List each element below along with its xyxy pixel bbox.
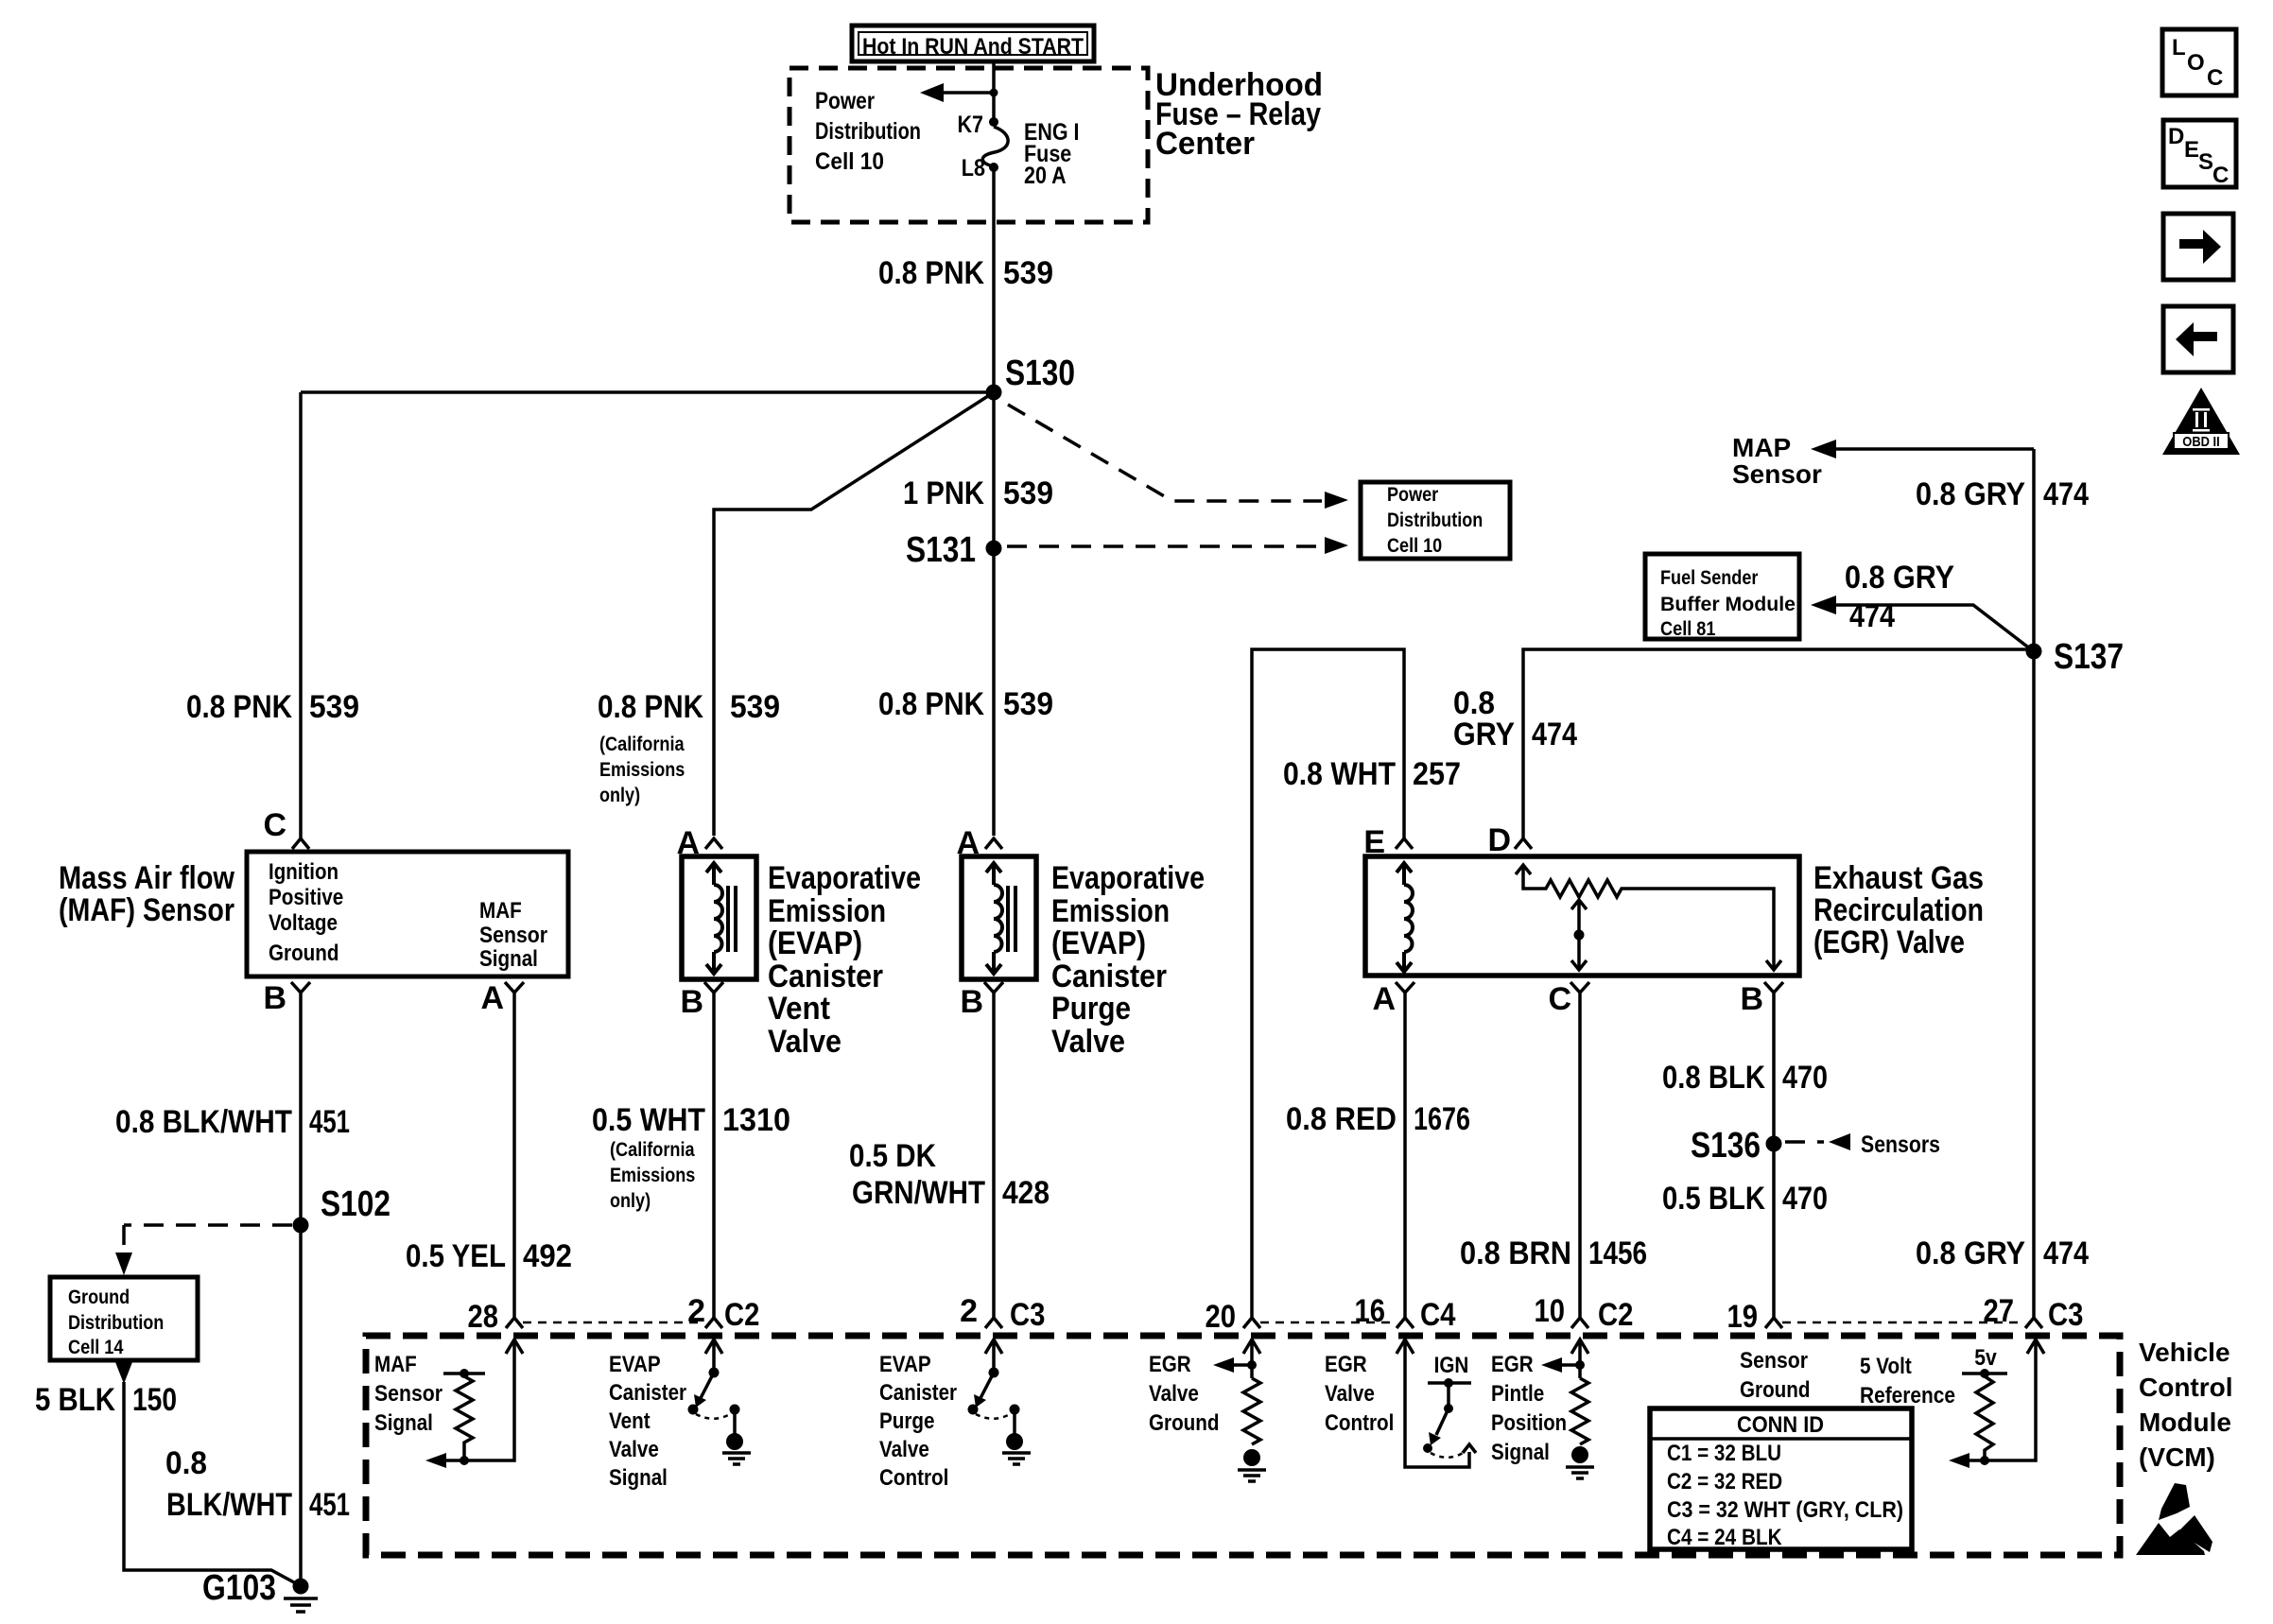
wire S130 down to S131 and purge valve [992,392,996,836]
node 5 Volt Reference circuit (pin 27) [1860,1339,2044,1468]
svg-text:10: 10 [1535,1293,1566,1329]
svg-text:B: B [1740,981,1763,1017]
node MAF Sensor Signal input circuit (pin 28) [374,1339,523,1468]
svg-text:474: 474 [1849,598,1895,634]
svg-text:0.8 PNK: 0.8 PNK [878,686,984,722]
svg-text:Cell 81: Cell 81 [1660,618,1716,640]
label Evaporative Emission (EVAP) Canister Vent Valve [768,860,921,1060]
svg-text:0.8 RED: 0.8 RED [1286,1101,1397,1137]
svg-text:Positive: Positive [269,885,343,910]
wire 0.8 BLK 470 EGR B to S136 [1772,1000,1776,1318]
label 0.5 WHT 1310 (California) [592,1102,790,1212]
svg-text:Sensor: Sensor [374,1381,442,1407]
svg-text:Purge: Purge [1051,991,1131,1027]
svg-text:Evaporative: Evaporative [768,860,921,896]
svg-text:Control: Control [879,1465,948,1491]
svg-text:0.8 BLK/WHT: 0.8 BLK/WHT [115,1104,292,1140]
fuse F ENG I 20A [958,112,1080,189]
svg-text:0.5 BLK: 0.5 BLK [1662,1181,1765,1217]
svg-text:B: B [263,980,286,1016]
underhood fuse-relay center box [789,68,1148,222]
svg-text:5 Volt: 5 Volt [1860,1354,1912,1379]
svg-text:Control: Control [1325,1410,1394,1436]
pin B of MAF sensor [263,980,310,1016]
pin 2 C2 of VCM [687,1293,759,1333]
svg-text:Purge: Purge [879,1408,935,1434]
svg-text:EVAP: EVAP [609,1352,661,1377]
svg-text:257: 257 [1413,756,1461,792]
wire link pin 28 to pin 2 [523,1322,703,1324]
wire 0.8 BRN 1456 EGR C to pin 10 C2 [1578,1000,1582,1318]
icon right arrow box [2163,214,2233,280]
svg-text:Ignition: Ignition [269,859,338,885]
svg-text:Ground: Ground [269,941,339,966]
icon DESC box [2163,120,2236,188]
svg-text:2: 2 [687,1293,705,1329]
svg-text:19: 19 [1727,1299,1759,1335]
wire dashed S136 to other sensors [1785,1132,1940,1158]
svg-text:0.5 DK: 0.5 DK [849,1138,936,1174]
svg-text:5 BLK: 5 BLK [35,1382,115,1418]
node EVAP Canister Vent Valve Signal driver (pin 2 C2) [609,1339,751,1491]
svg-text:0.8 BRN: 0.8 BRN [1460,1235,1571,1271]
svg-text:EGR: EGR [1491,1352,1534,1377]
node S136 [1766,1136,1782,1152]
svg-text:S: S [2198,149,2213,175]
component MAF sensor box [247,852,568,976]
svg-text:C4 = 24 BLK: C4 = 24 BLK [1667,1525,1782,1550]
svg-text:D: D [1487,822,1511,858]
label Exhaust Gas Recirculation (EGR) Valve [1813,860,1984,960]
svg-text:Canister: Canister [879,1380,957,1406]
svg-text:Hot In RUN And START: Hot In RUN And START [862,34,1084,60]
wire 0.5 DK GRN/WHT 428 purge valve to pin 2 C3 [992,1000,996,1318]
svg-text:B: B [680,984,703,1020]
svg-text:28: 28 [468,1299,499,1335]
svg-text:Module: Module [2139,1408,2231,1437]
svg-text:MAP: MAP [1732,433,1791,462]
wire S130 to MAF branch (horizontal) [301,390,994,394]
icon OBD II triangle [2162,388,2240,455]
svg-text:428: 428 [1002,1175,1050,1211]
svg-text:S102: S102 [321,1184,390,1224]
svg-text:C3 = 32 WHT (GRY, CLR): C3 = 32 WHT (GRY, CLR) [1667,1497,1903,1523]
svg-text:BLK/WHT: BLK/WHT [166,1487,292,1523]
svg-text:0.8: 0.8 [165,1445,207,1481]
pin 27 C3 of VCM [1984,1293,2084,1333]
svg-text:Emissions: Emissions [610,1165,695,1186]
svg-text:C: C [263,807,286,843]
svg-text:O: O [2187,50,2205,76]
svg-text:1456: 1456 [1588,1235,1647,1271]
svg-text:EGR: EGR [1149,1352,1191,1377]
svg-text:GRY: GRY [1453,717,1515,752]
svg-text:OBD II: OBD II [2182,434,2219,450]
resistor EGR pintle potentiometer [1516,865,1774,970]
svg-text:Valve: Valve [1051,1024,1125,1060]
icon LOC box [2162,29,2236,95]
wire 0.5 WHT 1310 vent valve to pin 2 C2 [712,1000,716,1318]
component EVAP canister purge valve [962,856,1036,979]
label Mass Air flow (MAF) Sensor [59,860,234,928]
wire feed from header into fuse box [992,61,996,122]
svg-text:0.8 WHT: 0.8 WHT [1283,756,1396,792]
node Sensor Ground (pin 19) [1740,1348,1811,1403]
node EGR Pintle Position Signal input (pin 10 C2) [1491,1339,1594,1478]
svg-text:492: 492 [523,1238,572,1274]
svg-text:Emissions: Emissions [599,759,685,781]
svg-text:Mass Air flow: Mass Air flow [59,860,234,896]
component VCM dashed box [366,1336,2120,1555]
svg-text:0.8 PNK: 0.8 PNK [598,689,703,725]
pin 28 of VCM [468,1299,524,1335]
label 0.5 DK GRN/WHT 428 [849,1138,1050,1211]
svg-text:CONN ID: CONN ID [1737,1412,1824,1438]
icon left arrow box [2163,306,2233,372]
pin 20 of VCM [1206,1299,1261,1335]
icon ESD warning triangles [2136,1483,2212,1555]
pin B of EGR valve [1740,981,1783,1017]
svg-text:539: 539 [1003,475,1053,511]
svg-text:S131: S131 [906,530,976,570]
wire dashed S131 to Power Distribution Cell 10 [1007,537,1348,554]
svg-text:1310: 1310 [722,1102,790,1138]
pin C of MAF sensor [263,807,309,849]
pin B of EVAP vent valve [680,982,723,1020]
svg-text:474: 474 [2043,476,2089,512]
label 0.8 GRY 474 (pin D) [1453,685,1577,752]
svg-text:IGN: IGN [1434,1353,1469,1378]
svg-text:S130: S130 [1005,354,1075,393]
component EGR valve box [1365,856,1799,976]
svg-text:Valve: Valve [879,1437,929,1462]
svg-text:20 A: 20 A [1024,163,1067,189]
svg-text:5v: 5v [1974,1345,1997,1371]
svg-text:EGR: EGR [1325,1352,1367,1377]
wire 0.8 GRY 474 from S137 down to EGR pin D [1523,649,2034,838]
pin 2 C3 of VCM [960,1293,1045,1333]
svg-text:539: 539 [1003,255,1053,291]
svg-text:only): only) [599,785,640,806]
node Ground Distribution Cell 14 box [50,1277,198,1360]
pin C of EGR valve [1548,981,1589,1017]
svg-text:C3: C3 [2048,1297,2083,1333]
svg-text:Cell 14: Cell 14 [68,1337,124,1358]
svg-text:Sensor: Sensor [479,923,547,948]
svg-text:Evaporative: Evaporative [1051,860,1205,896]
svg-text:MAF: MAF [479,898,522,924]
svg-text:Recirculation: Recirculation [1813,892,1984,928]
svg-text:Distribution: Distribution [815,118,921,145]
svg-text:150: 150 [132,1382,177,1418]
svg-text:451: 451 [309,1104,350,1140]
svg-text:Canister: Canister [1051,959,1167,994]
svg-text:2: 2 [960,1293,978,1329]
svg-text:Ground: Ground [68,1287,130,1308]
svg-text:Vent: Vent [609,1408,651,1434]
wire S130 diagonal branch to vent valve [714,394,991,836]
wire 0.8 WHT 257 loop pin 20 to EGR pin E [1252,649,1404,1318]
svg-text:Signal: Signal [374,1410,433,1436]
svg-text:D: D [2168,124,2184,149]
svg-text:B: B [960,984,983,1020]
node Power Distribution Cell 10 box [1361,482,1510,559]
svg-text:S137: S137 [2054,637,2124,677]
svg-text:(VCM): (VCM) [2139,1443,2215,1472]
svg-text:Valve: Valve [1325,1381,1375,1407]
svg-text:Valve: Valve [768,1024,842,1060]
node Fuel Sender Buffer Module Cell 81 box [1645,554,1799,640]
svg-text:(EVAP): (EVAP) [1051,925,1146,961]
pin A of EGR valve [1372,981,1414,1017]
svg-text:0.8 PNK: 0.8 PNK [186,689,292,725]
transistor EGR Valve Control driver (pin 16 C4) [1325,1339,1476,1467]
svg-text:Distribution: Distribution [68,1312,164,1334]
label Vehicle Control Module (VCM) [2139,1338,2233,1472]
svg-text:G103: G103 [202,1568,276,1608]
svg-text:16: 16 [1355,1293,1386,1329]
svg-text:L: L [2172,35,2186,60]
svg-text:0.5 WHT: 0.5 WHT [592,1102,705,1138]
svg-text:(EVAP): (EVAP) [768,925,862,961]
node EGR Valve Ground circuit (pin 20) [1149,1339,1266,1481]
wire dashed S102 to Ground Distribution [115,1225,292,1275]
svg-text:Signal: Signal [1491,1440,1550,1465]
svg-text:1 PNK: 1 PNK [903,475,984,511]
svg-text:539: 539 [730,689,780,725]
svg-text:Sensor: Sensor [1732,459,1822,489]
pin 19 of VCM [1727,1299,1783,1335]
svg-text:Distribution: Distribution [1387,510,1483,531]
pin A of MAF sensor [480,980,524,1016]
node S130 [986,385,1002,401]
svg-text:Signal: Signal [479,946,538,972]
svg-text:C: C [2212,163,2229,188]
svg-text:0.8 BLK: 0.8 BLK [1662,1060,1765,1096]
wire dashed S130 to Power Distribution Cell 10 [1008,405,1348,509]
svg-text:470: 470 [1782,1181,1828,1217]
node CONN ID table [1650,1408,1912,1550]
svg-text:(MAF) Sensor: (MAF) Sensor [59,892,234,928]
svg-text:Power: Power [1387,484,1438,506]
svg-text:Valve: Valve [609,1437,659,1462]
svg-text:Voltage: Voltage [269,910,338,936]
svg-text:0.5 YEL: 0.5 YEL [406,1238,506,1274]
svg-text:474: 474 [1532,717,1577,752]
svg-text:20: 20 [1206,1299,1237,1335]
svg-text:only): only) [610,1190,651,1212]
svg-text:Cell 10: Cell 10 [1387,535,1442,557]
svg-text:1676: 1676 [1414,1101,1470,1137]
label Power Distribution Cell 10 (fuse box) [815,88,921,175]
svg-text:Position: Position [1491,1410,1567,1436]
svg-text:Sensors: Sensors [1861,1132,1940,1158]
wire 0.8 RED 1676 EGR A to pin 16 C4 [1403,1000,1407,1318]
pin E of EGR valve [1363,824,1413,860]
wire MAF ignition feed down [299,392,303,838]
svg-text:C2: C2 [1598,1297,1633,1333]
svg-text:K7: K7 [958,112,984,138]
svg-text:Canister: Canister [609,1380,686,1406]
svg-text:EVAP: EVAP [879,1352,931,1377]
wire EGR pintle wiper [1571,900,1587,970]
svg-text:0.8 GRY: 0.8 GRY [1845,560,1954,596]
svg-text:Cell 10: Cell 10 [815,148,884,175]
wire arrow to power distribution (left) [920,83,998,102]
wire link pin 20 to pin 16 [1260,1322,1395,1324]
svg-text:474: 474 [2043,1235,2089,1271]
svg-text:S136: S136 [1691,1126,1761,1166]
svg-text:C4: C4 [1420,1297,1456,1333]
svg-text:Reference: Reference [1860,1383,1955,1408]
wire MAP sensor arrow from 474 wire [1732,433,2034,489]
svg-text:539: 539 [309,689,359,725]
svg-text:C3: C3 [1010,1297,1045,1333]
wire link pin 19 to pin 27 [1782,1322,2024,1324]
svg-text:C2: C2 [724,1297,759,1333]
wire 0.8 BLK/WHT 451 MAF ground down to G103 [299,1000,303,1586]
svg-text:(California: (California [610,1139,695,1161]
pin B of EVAP purge valve [960,982,1003,1020]
svg-text:0.8 GRY: 0.8 GRY [1916,1235,2025,1271]
svg-text:Sensor: Sensor [1740,1348,1808,1373]
svg-text:Emission: Emission [768,893,886,929]
node EVAP Canister Purge Valve Control driver (pin 2 C3) [879,1339,1031,1491]
svg-text:Center: Center [1155,126,1255,162]
svg-text:0.8 PNK: 0.8 PNK [878,255,984,291]
svg-text:MAF: MAF [374,1352,417,1377]
svg-text:Pintle: Pintle [1491,1381,1544,1407]
wire 0.8 GRY 474 main down to pin 27 C3 [2032,449,2036,1318]
wire 5 BLK 150 from Ground Distribution to G103 [115,1362,294,1582]
node S102 [293,1218,309,1234]
svg-text:A: A [1372,981,1396,1017]
svg-text:470: 470 [1782,1060,1828,1096]
pin 16 C4 of VCM [1355,1293,1456,1333]
svg-text:A: A [480,980,504,1016]
svg-text:Ground: Ground [1740,1377,1811,1403]
wire 0.5 YEL 492 MAF signal to pin 28 [512,1000,516,1318]
svg-text:Vent: Vent [768,991,830,1027]
svg-text:L8: L8 [962,155,985,181]
svg-text:Buffer Module: Buffer Module [1660,594,1796,615]
component EVAP canister vent valve [682,856,756,979]
pin D of EGR valve [1487,822,1532,858]
svg-text:Canister: Canister [768,959,883,994]
svg-text:C: C [2207,65,2223,91]
svg-text:27: 27 [1984,1293,2015,1329]
svg-text:Emission: Emission [1051,893,1170,929]
pin A of EVAP purge valve [956,825,1002,861]
wire 0.8 GRY 474 branch S137 to fuel sender buffer module [1811,560,2031,649]
svg-text:Fuel Sender: Fuel Sender [1660,567,1758,589]
svg-text:(EGR) Valve: (EGR) Valve [1813,924,1965,960]
svg-text:C1 = 32 BLU: C1 = 32 BLU [1667,1441,1781,1466]
svg-text:C: C [1548,981,1571,1017]
pin A of EVAP vent valve [676,825,722,861]
svg-text:Vehicle: Vehicle [2139,1338,2230,1367]
svg-text:Signal: Signal [609,1465,668,1491]
svg-text:Power: Power [815,88,875,114]
node S137 [2026,644,2042,660]
svg-text:(California: (California [599,734,685,755]
svg-text:Valve: Valve [1149,1381,1199,1407]
svg-text:Control: Control [2139,1373,2233,1402]
svg-text:Ground: Ground [1149,1410,1220,1436]
label 0.8 PNK 539 (vent feed, California) [598,689,780,806]
svg-text:451: 451 [309,1487,350,1523]
svg-text:539: 539 [1003,686,1053,722]
node Hot In RUN And START header [852,26,1094,61]
wire 0.8 PNK 539 from fuse to S130 [992,167,996,392]
node S131 [986,541,1002,557]
svg-text:E: E [2184,137,2199,163]
pin 10 C2 of VCM [1535,1293,1634,1333]
ground G103 [202,1568,318,1612]
label Underhood Fuse-Relay Center [1155,67,1323,162]
svg-text:C2 = 32 RED: C2 = 32 RED [1667,1469,1782,1494]
svg-text:Exhaust Gas: Exhaust Gas [1813,860,1984,896]
label Evaporative Emission (EVAP) Canister Purge Valve [1051,860,1205,1060]
svg-text:GRN/WHT: GRN/WHT [852,1175,985,1211]
svg-text:0.8 GRY: 0.8 GRY [1916,476,2025,512]
